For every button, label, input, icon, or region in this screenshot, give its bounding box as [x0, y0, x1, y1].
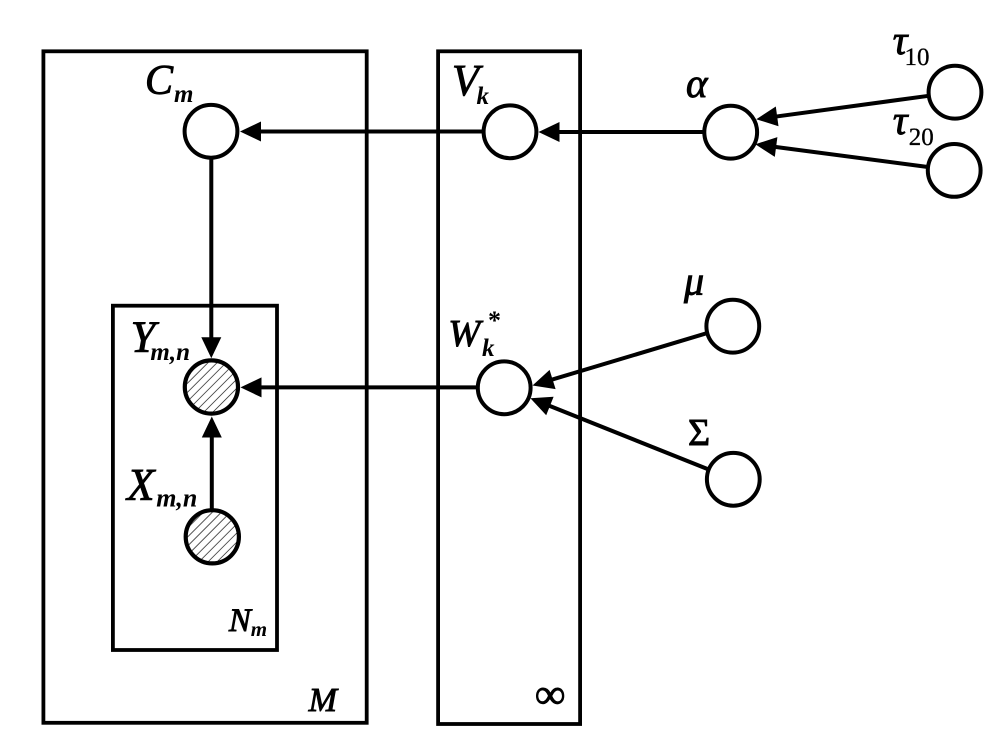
node C_m: [185, 105, 238, 158]
svg-text:m: m: [251, 617, 267, 641]
svg-text:k: k: [477, 83, 490, 110]
node tau10: [929, 66, 982, 119]
wire tau10 to alpha: [756, 96, 928, 127]
svg-text:α: α: [686, 60, 709, 106]
node Sigma label: [688, 412, 710, 454]
node tau20 label: [893, 97, 934, 151]
node X_m,n label: [125, 460, 197, 513]
svg-text:20: 20: [909, 124, 934, 151]
svg-text:M: M: [308, 682, 339, 719]
wire Sigma to W_k: [530, 397, 708, 470]
svg-text:k: k: [482, 335, 495, 362]
node V_k: [484, 105, 537, 158]
plate N_m: [113, 306, 277, 650]
plate N_m label: [228, 603, 267, 641]
svg-text:N: N: [228, 603, 253, 639]
svg-text:m: m: [174, 81, 193, 108]
svg-text:m,n: m,n: [156, 484, 197, 513]
svg-text:*: *: [488, 306, 501, 335]
svg-text:∞: ∞: [535, 672, 565, 718]
plate M label: [308, 682, 339, 719]
node W_k_star label: [448, 306, 501, 362]
svg-text:m,n: m,n: [150, 339, 190, 366]
node W_k_star: [478, 361, 531, 414]
node V_k label: [452, 56, 490, 110]
plate infinity label: [535, 672, 565, 718]
wire tau20 to alpha: [755, 137, 928, 167]
node Y_m,n label: [131, 313, 190, 367]
svg-text:W: W: [448, 313, 483, 355]
svg-text:τ: τ: [893, 97, 909, 143]
node alpha label: [686, 60, 709, 106]
wire C_m to Y_m,n: [201, 158, 221, 358]
node mu label: [683, 259, 704, 304]
node alpha: [704, 106, 757, 159]
plate infinity: [438, 51, 580, 724]
node tau10 label: [893, 17, 930, 71]
node Sigma: [707, 453, 760, 506]
node C_m label: [145, 58, 193, 108]
wire V_k to C_m: [240, 122, 482, 142]
node tau20: [928, 144, 981, 197]
wire alpha to V_k: [539, 122, 704, 142]
plate M: [43, 51, 366, 723]
svg-text:μ: μ: [683, 259, 704, 304]
svg-text:X: X: [125, 460, 156, 510]
svg-text:C: C: [145, 58, 174, 104]
wire W_k to Y_m,n: [241, 377, 478, 397]
node mu: [706, 300, 759, 353]
wire X_m,n to Y_m,n: [202, 417, 222, 510]
svg-text:10: 10: [905, 44, 930, 71]
node Y_m,n shaded: [185, 360, 238, 413]
node X_m,n shaded: [186, 510, 239, 563]
wire mu to W_k: [533, 333, 708, 389]
svg-text:Σ: Σ: [688, 412, 710, 454]
